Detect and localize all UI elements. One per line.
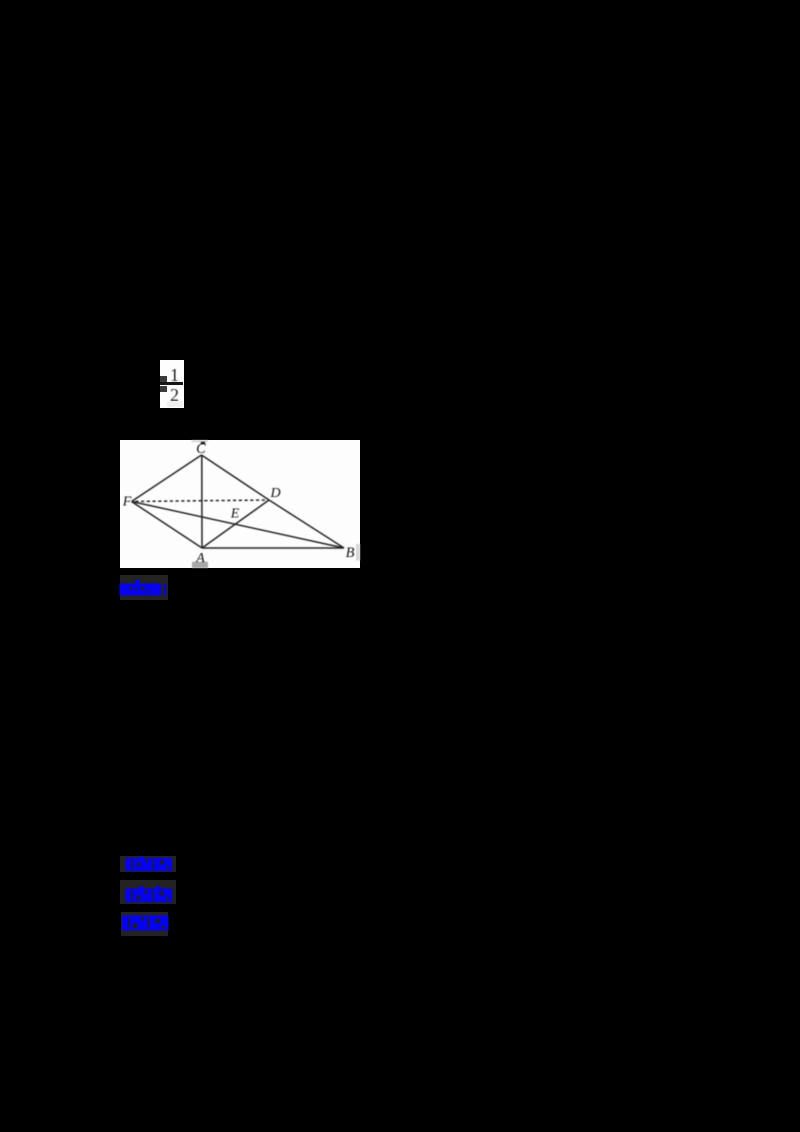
fraction bar [160, 382, 183, 385]
wire C-A vertical [201, 455, 203, 548]
wire F-C [132, 455, 202, 502]
wire D-B [269, 500, 344, 548]
svg-text:A: A [195, 551, 205, 566]
gray mark above C [192, 440, 209, 442]
gray mark right of B [356, 544, 360, 561]
numerator 1 [167, 369, 182, 383]
denominator 2 [167, 389, 182, 403]
wire A-B [202, 547, 344, 549]
svg-text:E: E [230, 507, 240, 522]
blue tag 4 [121, 912, 168, 936]
svg-text:F: F [122, 494, 132, 509]
wire F-B through E [132, 502, 345, 549]
equals sign upper bar [160, 376, 167, 382]
svg-text:B: B [346, 545, 355, 561]
wire C-D [202, 455, 270, 500]
svg-text:C: C [196, 441, 206, 457]
svg-text:D: D [269, 486, 280, 501]
wire F-A [132, 502, 203, 549]
wire A-D through E [202, 500, 269, 548]
blue tag 2 [120, 856, 176, 872]
dashed wire F-D [132, 500, 270, 502]
faint shadow bottom [167, 401, 183, 407]
dark tick above C [201, 442, 205, 444]
blue tag 1 (after figure) [120, 575, 168, 600]
fraction box "=1/2" [160, 360, 184, 408]
geometry figure panel [120, 440, 360, 568]
gray mark below A [192, 562, 208, 568]
blue tag 3 [120, 880, 176, 904]
equals sign lower bar [160, 386, 167, 392]
